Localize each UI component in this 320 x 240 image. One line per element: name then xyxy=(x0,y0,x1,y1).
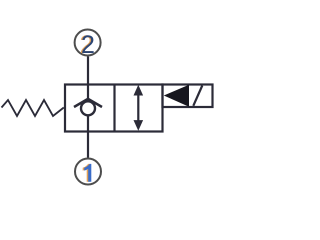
flow path double arrow (right cell) xyxy=(137,92,139,124)
valve body (2-position envelope) xyxy=(65,85,163,132)
position divider line xyxy=(113,85,115,132)
port 1 label xyxy=(83,164,90,182)
port 1 circle xyxy=(75,159,101,185)
wire from valve body bottom to port 1 circle xyxy=(87,132,89,158)
solenoid triangle xyxy=(164,85,189,107)
check valve wire (left cell, lower) xyxy=(87,115,89,132)
check valve seat V xyxy=(74,99,102,107)
check valve ball xyxy=(81,101,95,115)
check valve wire (left cell, upper) xyxy=(87,85,89,101)
port 2 circle xyxy=(75,30,101,56)
spring (left actuator) xyxy=(2,100,64,116)
svg-text:2: 2 xyxy=(81,31,95,59)
solenoid slash xyxy=(193,86,202,106)
wire from port 2 circle to valve body top xyxy=(87,57,89,85)
solenoid box (right actuator) xyxy=(163,85,213,108)
